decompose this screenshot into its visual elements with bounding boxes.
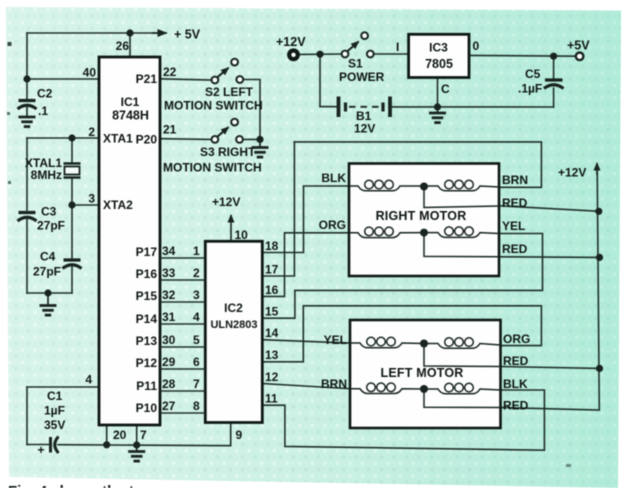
coil L2b — [424, 233, 500, 238]
wire IC2 pin 16 to ORG — [262, 233, 349, 297]
svg-text:IC2: IC2 — [224, 301, 243, 315]
wire IC1 pin 26 stub — [129, 33, 131, 57]
wire IC2 pin 9 stub — [230, 423, 232, 446]
svg-text:P14: P14 — [136, 312, 158, 326]
pin labels 18-11 — [265, 239, 279, 406]
coil L4b — [424, 389, 501, 394]
coil L4a — [350, 389, 424, 394]
capacitor C4 — [63, 260, 82, 269]
svg-text:3: 3 — [88, 192, 95, 206]
svg-text:.1: .1 — [38, 104, 48, 118]
svg-text:+12V: +12V — [212, 195, 240, 209]
svg-text:RED: RED — [502, 196, 528, 210]
wire C3 lower — [26, 219, 28, 293]
ground IC3 common — [429, 107, 446, 123]
svg-text:P16: P16 — [136, 267, 158, 281]
wire ground node to C5 bottom — [438, 106, 554, 108]
svg-text:P12: P12 — [136, 356, 158, 370]
svg-text:27pF: 27pF — [33, 265, 61, 279]
node +5V top left arrow — [152, 28, 201, 42]
junction pin7 rail — [133, 441, 140, 448]
wire IC2 pin 18 to BLK — [262, 186, 349, 253]
svg-text:2: 2 — [88, 125, 95, 139]
svg-text:18: 18 — [265, 239, 279, 253]
caption fragment bottom — [8, 483, 134, 488]
wire IC2 pin 15 riser — [262, 290, 295, 318]
wire right motor top tap — [424, 187, 500, 208]
wire P17 to pin1 — [160, 257, 205, 259]
svg-text:6: 6 — [193, 355, 200, 369]
svg-text:17: 17 — [265, 263, 279, 277]
svg-text:16: 16 — [265, 283, 279, 297]
svg-text:33: 33 — [162, 266, 176, 280]
ground below IC1 pin 7 — [128, 445, 145, 461]
wire +12V rail right side — [501, 167, 600, 410]
svg-text:C2: C2 — [37, 87, 53, 101]
svg-text:P13: P13 — [136, 334, 158, 348]
junction C5 output — [550, 53, 557, 60]
svg-text:P21: P21 — [136, 72, 158, 86]
svg-text:POWER: POWER — [339, 70, 385, 84]
wire left motor bottom tap — [424, 389, 501, 408]
wire C1 loop vertical — [26, 387, 28, 445]
switch S2 — [212, 59, 244, 84]
junction right motor top tap — [420, 183, 428, 191]
svg-text:30: 30 — [162, 333, 176, 347]
svg-text:8: 8 — [193, 399, 200, 413]
wire battery branch vertical — [319, 54, 321, 106]
svg-text:3: 3 — [193, 288, 200, 302]
pin number labels 34/1 rows — [162, 244, 200, 413]
svg-text:7: 7 — [193, 377, 200, 391]
svg-text:11: 11 — [265, 392, 278, 406]
junction rail RED left motor — [596, 365, 603, 372]
op-amp IC1 8748H body — [99, 57, 160, 425]
svg-text:4: 4 — [193, 310, 200, 324]
wire P16 to pin2 — [160, 279, 205, 281]
wire IC1 pin 21 to S3 — [160, 138, 212, 141]
scan speck left edge b — [7, 112, 10, 115]
coil L1b — [424, 186, 500, 191]
svg-text:C5: C5 — [525, 67, 541, 81]
svg-text:1: 1 — [193, 244, 200, 258]
junction C3/C4 ground — [44, 289, 51, 296]
junction IC3 common ground — [434, 103, 441, 110]
svg-text:C4: C4 — [40, 250, 56, 264]
svg-text:P20: P20 — [136, 133, 158, 147]
wire left motor top tap — [424, 344, 501, 367]
svg-text:40: 40 — [83, 66, 97, 80]
svg-text:+5V: +5V — [567, 39, 590, 53]
svg-text:MOTION SWITCH: MOTION SWITCH — [163, 161, 262, 175]
svg-text:35V: 35V — [44, 418, 65, 432]
svg-text:28: 28 — [162, 377, 176, 391]
wire IC1 pin 20 stub — [106, 425, 108, 445]
svg-text:13: 13 — [265, 348, 279, 362]
wire P15 to pin3 — [160, 301, 205, 303]
svg-text:27pF: 27pF — [37, 219, 65, 233]
wire IC3 common stub — [437, 78, 439, 107]
svg-text:12: 12 — [265, 370, 279, 384]
svg-text:RED: RED — [502, 242, 528, 256]
svg-text:14: 14 — [265, 326, 279, 340]
wire right motor RED top to +12V rail — [500, 206, 599, 212]
junction pin26/+5V — [126, 29, 133, 36]
op-amp IC2 ULN2803 body — [205, 241, 262, 422]
motor RIGHT MOTOR — [349, 164, 500, 277]
wire pin17 loop to right motor BRN — [294, 142, 541, 187]
svg-text:4: 4 — [85, 373, 92, 387]
wire C4 lower — [71, 267, 73, 293]
svg-text:RIGHT MOTOR: RIGHT MOTOR — [376, 209, 467, 223]
svg-text:C3: C3 — [41, 205, 57, 219]
coil L2a — [349, 233, 424, 238]
wire IC2 pin 13 riser — [262, 306, 303, 362]
svg-text:ORG: ORG — [319, 218, 346, 232]
coil L3b — [424, 344, 501, 349]
svg-text:C: C — [441, 82, 450, 96]
wire +12V input to S1 — [300, 53, 342, 55]
svg-text:27: 27 — [162, 399, 176, 413]
svg-text:BLK: BLK — [503, 377, 528, 391]
wire left motor RED top to +12V rail — [501, 367, 600, 369]
svg-text:29: 29 — [162, 355, 176, 369]
wire IC1 pin 40 — [27, 78, 99, 80]
wire S2 right contact to corner — [243, 80, 260, 140]
wire pin3 junction down to C4 — [71, 205, 73, 259]
wire C1 left lead — [27, 444, 50, 446]
svg-text:MOTION SWITCH: MOTION SWITCH — [164, 99, 263, 113]
wire +5V top rail — [27, 32, 159, 34]
wire IC2 pin 14 to left motor YEL — [262, 340, 350, 343]
switch S1 POWER — [342, 32, 374, 57]
svg-text:0: 0 — [473, 39, 480, 53]
wire C3/C4 join bottom — [27, 292, 72, 294]
junction right motor bottom tap — [420, 229, 428, 237]
svg-text:RED: RED — [503, 354, 529, 368]
wire IC2 pin 17 riser — [262, 142, 294, 276]
motor LEFT MOTOR — [350, 320, 501, 428]
switch S3 — [212, 119, 243, 143]
wire XTAL branch top — [71, 138, 73, 163]
svg-text:20: 20 — [113, 428, 127, 442]
ground below C2 — [19, 117, 36, 127]
svg-text:P15: P15 — [136, 289, 158, 303]
svg-text:IC3: IC3 — [429, 41, 448, 55]
wires IC1 to IC2 pins 1-8 — [160, 258, 205, 413]
wire pin13 loop to left motor ORG — [303, 306, 541, 346]
svg-text:P11: P11 — [136, 379, 157, 393]
svg-text:8748H: 8748H — [112, 109, 149, 123]
svg-text:+: + — [38, 443, 45, 457]
svg-text:+12V: +12V — [558, 166, 586, 180]
junction pin40/C2 — [23, 75, 30, 82]
svg-text:.1µF: .1µF — [518, 82, 542, 96]
svg-text:34: 34 — [162, 244, 176, 258]
svg-text:ULN2803: ULN2803 — [210, 319, 257, 331]
wire IC2 pin 12 to left motor BRN — [262, 384, 350, 389]
svg-text:31: 31 — [162, 310, 176, 324]
junction rail RED1 right motor — [595, 208, 602, 215]
wire P12 to pin6 — [160, 368, 205, 370]
scan speck bottom right — [566, 464, 571, 467]
junction left motor top tap — [420, 340, 428, 348]
svg-text:9: 9 — [236, 428, 243, 442]
wire IC1 pin 4 — [27, 386, 99, 388]
capacitor C2 — [18, 99, 37, 116]
svg-text:S2 LEFT: S2 LEFT — [205, 85, 254, 99]
junction rail RED2 right motor — [596, 254, 603, 261]
svg-text:LEFT MOTOR: LEFT MOTOR — [380, 366, 463, 380]
svg-text:ORG: ORG — [503, 332, 530, 346]
svg-text:P17: P17 — [136, 245, 158, 259]
coil L1a — [349, 186, 424, 191]
svg-text:XTA2: XTA2 — [103, 198, 133, 212]
svg-text:32: 32 — [162, 288, 176, 302]
junction pin3/XTAL — [68, 201, 75, 208]
ground below C3/C4 — [40, 293, 57, 315]
svg-text:BRN: BRN — [321, 377, 347, 391]
svg-text:12V: 12V — [354, 122, 375, 136]
ground S2/S3 — [252, 139, 269, 157]
junction left motor bottom tap — [420, 385, 428, 393]
scan speck left edge a — [8, 42, 12, 46]
wire IC3 output to +5V terminal — [469, 54, 575, 57]
junction pin20 rail — [103, 441, 110, 448]
svg-text:21: 21 — [163, 123, 177, 137]
wire battery left lead — [320, 106, 337, 108]
wire IC1 pin 22 to S2 — [160, 79, 212, 80]
svg-text:5: 5 — [193, 333, 200, 347]
svg-text:IC1: IC1 — [121, 95, 140, 109]
svg-text:P10: P10 — [136, 401, 158, 415]
capacitor C5 — [544, 80, 564, 89]
svg-text:YEL: YEL — [502, 219, 525, 233]
svg-text:YEL: YEL — [324, 333, 347, 347]
wire C5 top lead — [553, 56, 555, 79]
wire right motor bottom tap — [424, 233, 500, 257]
svg-text:10: 10 — [235, 228, 249, 242]
scan speck left edge c — [8, 181, 11, 184]
wire ground rail bottom left — [58, 445, 231, 446]
wire C2-C3 branch vertical — [26, 138, 28, 210]
wire P10 to pin8 — [160, 412, 205, 414]
svg-text:RED: RED — [503, 399, 529, 413]
capacitor C1 — [51, 437, 59, 454]
svg-text:+ 5V: + 5V — [174, 28, 201, 42]
battery B1 — [339, 97, 391, 118]
junction S2/S3 ground — [256, 136, 263, 143]
svg-text:BRN: BRN — [502, 173, 528, 187]
wire IC1 pin 2 with corner — [27, 137, 99, 139]
op-amp IC3 7805 body — [409, 34, 469, 77]
svg-text:1µF: 1µF — [44, 404, 65, 418]
wire right motor RED bottom to +12V rail — [500, 256, 600, 259]
svg-text:S1: S1 — [348, 57, 363, 71]
svg-text:+12V: +12V — [276, 35, 306, 49]
svg-text:7: 7 — [140, 428, 147, 442]
svg-text:8MHz: 8MHz — [31, 168, 62, 182]
svg-text:XTA1: XTA1 — [103, 132, 133, 146]
svg-text:S3 RIGHT: S3 RIGHT — [200, 145, 256, 159]
wire left vertical from +5V to C2 — [26, 33, 28, 99]
wire P14 to pin4 — [160, 323, 205, 325]
crystal XTAL1 — [64, 164, 81, 178]
wire IC1 pin 3 — [72, 204, 99, 206]
svg-text:7805: 7805 — [425, 57, 453, 71]
svg-text:C1: C1 — [47, 389, 63, 403]
svg-text:I: I — [396, 40, 399, 54]
wire C5 bottom lead — [553, 88, 555, 107]
svg-text:26: 26 — [116, 39, 130, 53]
svg-text:22: 22 — [163, 65, 177, 79]
wire P11 to pin7 — [160, 390, 205, 392]
wire pin15 loop to right motor YEL — [295, 234, 543, 291]
capacitor C3 — [18, 213, 37, 222]
wire S1 to IC3 input — [374, 53, 409, 55]
svg-text:2: 2 — [193, 266, 200, 280]
wire IC2 pin 11 bottom loop to left motor BLK — [262, 390, 544, 450]
wire battery right lead to ground node — [392, 106, 438, 108]
wire IC1 pin 7 stub — [136, 425, 138, 445]
svg-text:15: 15 — [265, 305, 279, 319]
wire S3 right contact to ground node — [243, 138, 260, 140]
coil L3a — [350, 343, 424, 348]
svg-text:BLK: BLK — [321, 171, 346, 185]
wire P13 to pin5 — [160, 346, 205, 348]
junction pin2/XTAL — [68, 134, 75, 141]
wire XTAL to pin 3 — [71, 178, 73, 205]
junction battery branch — [316, 51, 323, 58]
